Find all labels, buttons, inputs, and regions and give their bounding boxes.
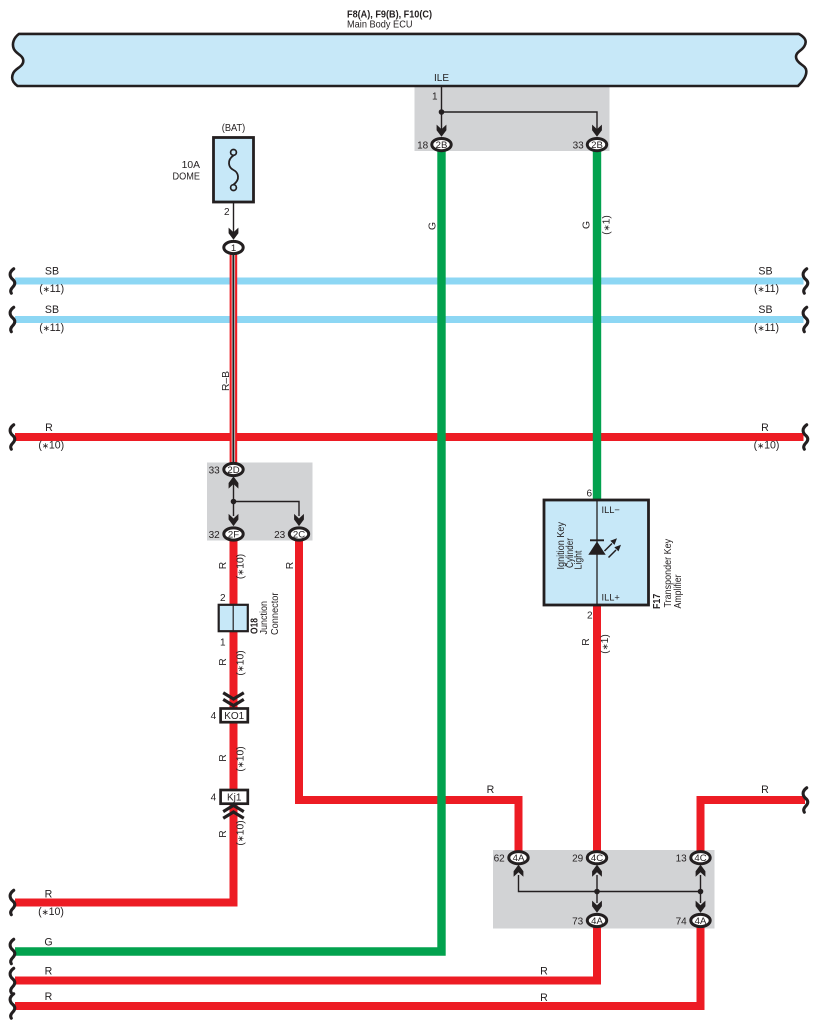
node label ILL- bbox=[602, 505, 620, 515]
arrow into 2F bbox=[229, 514, 239, 526]
svg-text:ILL+: ILL+ bbox=[602, 592, 620, 602]
Main Body ECU banner (torn-edge bar) bbox=[12, 34, 806, 86]
wire label R-B bbox=[221, 371, 232, 391]
svg-text:73: 73 bbox=[572, 916, 584, 927]
svg-text:32: 32 bbox=[209, 530, 221, 541]
connector oval 2B pin 33 bbox=[573, 139, 607, 152]
wire label R (KO1 to Kj1) bbox=[218, 754, 229, 761]
svg-text:29: 29 bbox=[572, 854, 584, 865]
wire label R (below Kj1) bbox=[218, 830, 229, 837]
wire label R (2C drop) bbox=[285, 562, 296, 569]
svg-text:18: 18 bbox=[417, 140, 429, 151]
break SB upper left bbox=[10, 269, 15, 293]
wire label SB lower right bbox=[754, 304, 779, 334]
svg-text:1: 1 bbox=[432, 92, 438, 103]
break G left bbox=[10, 939, 15, 963]
node label ILE bbox=[434, 73, 449, 84]
svg-text:Connector: Connector bbox=[270, 592, 281, 635]
arrow into 74(4A) bbox=[696, 901, 706, 913]
svg-text:R: R bbox=[581, 638, 592, 645]
svg-text:G: G bbox=[582, 221, 593, 229]
node label ILL+ bbox=[602, 592, 620, 602]
F17 pin 2 bbox=[587, 610, 593, 621]
svg-text:(∗10): (∗10) bbox=[236, 650, 247, 675]
svg-text:G: G bbox=[428, 222, 439, 230]
svg-text:Amplifier: Amplifier bbox=[673, 574, 684, 608]
connector oval 2D pin 33 bbox=[209, 463, 244, 476]
wire label (*1) (right drop) bbox=[602, 215, 613, 235]
break R 74 left bbox=[10, 994, 15, 1018]
svg-text:R: R bbox=[45, 965, 53, 977]
svg-text:Kj1: Kj1 bbox=[227, 793, 242, 804]
connector oval 4A pin 73 bbox=[572, 914, 607, 927]
wire R from F17 pin2 to 29(4C) bbox=[593, 605, 601, 852]
wire label SB lower left bbox=[39, 304, 64, 334]
wire label R (73 horizontal mid) bbox=[540, 965, 548, 977]
junction dot 29/73 bbox=[594, 889, 600, 895]
svg-text:G: G bbox=[44, 937, 52, 949]
connector box for 2D/2F/2C bbox=[207, 463, 313, 541]
wire label (*10) (2F drop) bbox=[236, 554, 247, 579]
wire label R (right top) bbox=[761, 784, 769, 796]
break SB lower right bbox=[803, 307, 808, 331]
title Main Body ECU bbox=[347, 19, 413, 31]
wire R from 2C down, right, to 62(4A) bbox=[299, 541, 519, 852]
label Ignition Key Cylinder Light bbox=[556, 521, 584, 569]
wire R from KO1 to Kj1 bbox=[230, 722, 238, 790]
wire label R (O18 to KO1) bbox=[218, 658, 229, 665]
connector KO1 pin 4 bbox=[211, 709, 248, 723]
svg-text:R: R bbox=[540, 965, 548, 977]
LED symbol bbox=[588, 538, 621, 557]
svg-text:1: 1 bbox=[231, 243, 236, 254]
svg-text:R–B: R–B bbox=[221, 371, 232, 391]
wire R from right edge to 13(4C) bbox=[701, 800, 806, 852]
wire R from 2F to O18 bbox=[230, 541, 238, 606]
svg-text:(∗10): (∗10) bbox=[38, 439, 64, 451]
wire SB upper bus bbox=[15, 278, 804, 285]
svg-text:(BAT): (BAT) bbox=[222, 123, 246, 134]
wire label (*10) (KO1 to Kj1) bbox=[236, 746, 247, 771]
svg-text:2B: 2B bbox=[436, 140, 448, 151]
svg-text:62: 62 bbox=[494, 854, 506, 865]
svg-text:(∗10): (∗10) bbox=[236, 554, 247, 579]
connector oval 4C pin 29 bbox=[572, 852, 607, 865]
svg-text:2: 2 bbox=[220, 593, 226, 604]
svg-text:(∗1): (∗1) bbox=[600, 634, 611, 654]
svg-text:SB: SB bbox=[758, 266, 772, 278]
svg-text:(∗10): (∗10) bbox=[236, 820, 247, 845]
inline splice chevrons above KO1 bbox=[223, 693, 244, 706]
svg-text:2F: 2F bbox=[228, 530, 239, 541]
svg-text:4A: 4A bbox=[591, 916, 603, 927]
wire G from 18(2B) down and left to edge bbox=[15, 151, 442, 952]
svg-text:2C: 2C bbox=[293, 530, 305, 541]
wire label (*10) (O18 to KO1) bbox=[236, 650, 247, 675]
svg-text:R: R bbox=[761, 422, 769, 434]
arrow into 2C bbox=[294, 514, 304, 526]
connector oval 4A pin 74 bbox=[676, 914, 711, 927]
break R bus right bbox=[803, 425, 808, 449]
arrow up out of 2D bbox=[229, 476, 239, 488]
arrow into 73(4A) bbox=[592, 901, 602, 913]
svg-text:(∗10): (∗10) bbox=[754, 439, 780, 451]
connector Kj1 pin 4 bbox=[211, 790, 248, 804]
O18 pin 2 bbox=[220, 593, 226, 604]
break R right top bbox=[803, 788, 808, 812]
svg-text:SB: SB bbox=[45, 266, 59, 278]
svg-text:R: R bbox=[285, 562, 296, 569]
fuse 10A DOME box bbox=[214, 138, 254, 203]
wire SB lower bus bbox=[15, 316, 804, 323]
svg-text:R: R bbox=[761, 784, 769, 796]
break SB lower left bbox=[10, 307, 15, 331]
svg-text:R: R bbox=[45, 422, 53, 434]
wire fuse to oval 1 bbox=[233, 202, 235, 234]
fuse pin 2 bbox=[224, 207, 230, 218]
svg-text:33: 33 bbox=[209, 465, 221, 476]
svg-text:(∗11): (∗11) bbox=[754, 322, 779, 334]
fuse value 10A DOME bbox=[173, 160, 201, 183]
O18 pin 1 bbox=[220, 638, 226, 649]
connector box for 4A/4C bbox=[493, 850, 715, 929]
wire label (*1) (F17 drop) bbox=[600, 634, 611, 654]
svg-text:23: 23 bbox=[274, 530, 286, 541]
arrow into 33(2B) bbox=[592, 125, 602, 137]
title F8(A), F9(B), F10(C) bbox=[347, 9, 432, 21]
wire R from O18 to connector KO1 bbox=[230, 631, 238, 709]
svg-text:4A: 4A bbox=[513, 853, 525, 864]
svg-text:Junction: Junction bbox=[259, 601, 270, 635]
wire label SB upper right bbox=[754, 266, 779, 296]
junction dot ILE split bbox=[439, 109, 445, 115]
arrow up out of 29(4C) bbox=[592, 865, 602, 877]
wire R-B from fuse oval to 2D bbox=[230, 254, 238, 464]
wire label SB upper left bbox=[39, 266, 64, 296]
wire label R (73 horizontal left) bbox=[45, 965, 53, 977]
connector oval 1 bbox=[224, 241, 243, 254]
svg-text:Main Body ECU: Main Body ECU bbox=[347, 19, 413, 31]
connector oval 2C pin 23 bbox=[274, 528, 309, 541]
svg-text:ILL−: ILL− bbox=[602, 505, 620, 515]
wire label G (bottom) bbox=[44, 937, 52, 949]
svg-text:Light: Light bbox=[574, 550, 585, 569]
wire label R bus right bbox=[754, 422, 780, 452]
svg-text:F17: F17 bbox=[652, 593, 663, 609]
svg-text:4: 4 bbox=[211, 711, 217, 722]
junction dot 2D split bbox=[231, 499, 237, 505]
arrow up out of 13(4C) bbox=[696, 865, 706, 877]
wire label R (74 horizontal left) bbox=[45, 991, 53, 1003]
svg-text:74: 74 bbox=[676, 916, 688, 927]
svg-text:(∗11): (∗11) bbox=[39, 283, 64, 295]
break R 73 left bbox=[10, 968, 15, 992]
wire 2D split bbox=[234, 483, 300, 516]
F17 Ignition Key Cylinder Light box bbox=[544, 500, 649, 605]
wire stub ILE to split bbox=[441, 87, 443, 133]
svg-text:R: R bbox=[218, 562, 229, 569]
svg-text:R: R bbox=[45, 991, 53, 1003]
svg-text:DOME: DOME bbox=[173, 172, 201, 183]
svg-text:ILE: ILE bbox=[434, 73, 449, 84]
svg-text:(∗10): (∗10) bbox=[38, 906, 64, 918]
break SB upper right bbox=[803, 269, 808, 293]
wire R from 73(4A) down and left to edge bbox=[15, 927, 597, 981]
svg-text:R: R bbox=[218, 658, 229, 665]
wire label R (74 horizontal mid) bbox=[540, 992, 548, 1004]
svg-text:1: 1 bbox=[220, 638, 226, 649]
break R bus left bbox=[10, 425, 15, 449]
ECU interface box (top, under banner) bbox=[415, 87, 610, 152]
arrow into oval 1 bbox=[229, 228, 239, 240]
fuse label (BAT) bbox=[222, 123, 246, 134]
svg-text:6: 6 bbox=[586, 488, 592, 499]
wire label R (2C horizontal) bbox=[487, 784, 495, 796]
svg-text:4C: 4C bbox=[694, 853, 706, 864]
pin 1 (ILE) bbox=[432, 92, 438, 103]
svg-text:4A: 4A bbox=[695, 916, 707, 927]
svg-text:SB: SB bbox=[45, 304, 59, 316]
svg-text:2: 2 bbox=[224, 207, 230, 218]
wire R from 74(4A) down and left to edge bbox=[15, 927, 701, 1006]
wire label (*10) (below Kj1) bbox=[236, 820, 247, 845]
svg-text:10A: 10A bbox=[182, 160, 200, 171]
connector oval 4A pin 62 bbox=[494, 852, 529, 865]
wire split to 33(2B) bbox=[442, 112, 598, 132]
svg-text:2: 2 bbox=[587, 610, 593, 621]
label Junction Connector bbox=[259, 592, 281, 635]
wire label R bus left bbox=[38, 422, 64, 452]
svg-text:(∗11): (∗11) bbox=[39, 322, 64, 334]
svg-text:R: R bbox=[487, 784, 495, 796]
F17 pin 6 bbox=[586, 488, 592, 499]
label F17 Transponder Key Amplifier bbox=[652, 538, 684, 609]
svg-text:R: R bbox=[218, 754, 229, 761]
svg-text:(∗10): (∗10) bbox=[236, 746, 247, 771]
inline splice chevrons below Kj1 bbox=[223, 805, 244, 818]
svg-text:33: 33 bbox=[573, 140, 585, 151]
svg-text:KO1: KO1 bbox=[224, 711, 244, 722]
svg-text:2D: 2D bbox=[227, 465, 239, 476]
break R Kj1 left bbox=[10, 890, 15, 914]
label O18 bbox=[250, 618, 261, 634]
svg-text:R: R bbox=[540, 992, 548, 1004]
wire G from 33(2B) to F17 pin6 bbox=[593, 151, 601, 501]
svg-text:4C: 4C bbox=[591, 853, 603, 864]
svg-text:R: R bbox=[45, 889, 53, 901]
connector oval 4C pin 13 bbox=[676, 852, 711, 865]
svg-text:4: 4 bbox=[211, 793, 217, 804]
wire label G (left drop) bbox=[428, 222, 439, 230]
svg-text:13: 13 bbox=[676, 854, 688, 865]
svg-text:(∗11): (∗11) bbox=[754, 283, 779, 295]
wire R main bus (*10) bbox=[15, 433, 804, 441]
arrow into 18(2B) bbox=[437, 125, 447, 137]
wire label G (right drop) bbox=[582, 221, 593, 229]
svg-text:(∗1): (∗1) bbox=[602, 215, 613, 235]
arrow up out of 62(4A) bbox=[514, 865, 524, 877]
connector oval 2F pin 32 bbox=[209, 528, 244, 541]
svg-text:SB: SB bbox=[758, 304, 772, 316]
junction connector O18 bbox=[219, 605, 248, 631]
svg-text:2B: 2B bbox=[591, 140, 603, 151]
junction dot 13/74 bbox=[698, 889, 704, 895]
wire label R (F17 drop) bbox=[581, 638, 592, 645]
connector oval 2B pin 18 bbox=[417, 139, 451, 152]
wire label R (2F drop) bbox=[218, 562, 229, 569]
svg-text:R: R bbox=[218, 830, 229, 837]
wire tie line in 4A/4C box bbox=[519, 875, 701, 903]
wire label R / (*10) (Kj1 horizontal) bbox=[38, 889, 64, 919]
wire R from Kj1 down and left to edge bbox=[15, 804, 234, 903]
